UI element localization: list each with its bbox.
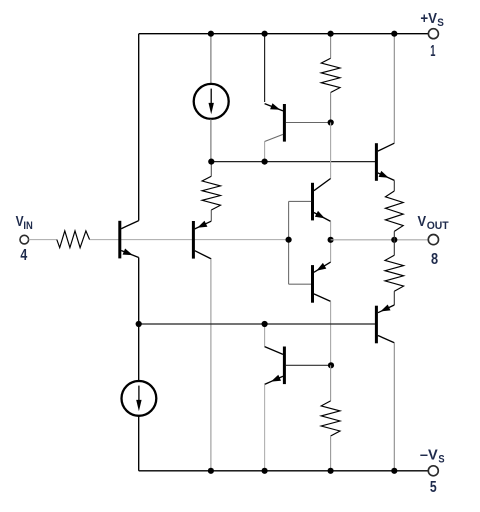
wire bias line lower (left vertical to Q8 base) [139, 323, 375, 325]
transistor Q4 (bottom NPN, left-facing) [283, 347, 286, 385]
wire Q5 emitter to output node [330, 221, 332, 262]
transistor Q7 (output NPN) [375, 143, 378, 181]
svg-text:OUT: OUT [427, 220, 450, 232]
wire +VS to resistor R3 [330, 34, 332, 59]
svg-text:+V: +V [420, 10, 437, 27]
wire VIN terminal to R1 [29, 239, 57, 241]
junction Q3 collector on bias line [262, 159, 268, 165]
terminal -VS pin [428, 466, 438, 476]
transistor Q5 (VBE multiplier NPN) [311, 183, 314, 221]
svg-text:S: S [437, 17, 444, 29]
svg-text:4: 4 [20, 247, 27, 264]
wire left vertical +VS to Q1 collector [138, 34, 140, 221]
transistor Q3 (top PNP, left-facing) [283, 104, 286, 142]
junction top rail I1 [208, 31, 214, 37]
junction output at right column [391, 237, 397, 243]
wire I2 to -VS rail [138, 416, 140, 471]
terminal VOUT pin [428, 235, 438, 245]
wire Q3 base to R3 [286, 122, 331, 124]
terminal VIN pin [20, 235, 29, 244]
wire Q6 collector node to resistor R6 [330, 365, 332, 401]
junction bottom rail Q4 emitter [262, 468, 268, 474]
wire I1 to node at R2 top [210, 119, 212, 162]
junction center output node [328, 237, 334, 243]
current source I2 (bottom) [121, 381, 156, 416]
wire bias line upper (I1/R2 node to Q7 base) [211, 161, 375, 163]
wire Q6 collector down to Q4 base node [330, 301, 332, 365]
svg-text:IN: IN [23, 220, 32, 232]
junction bottom rail Q2 collector [208, 468, 214, 474]
terminal +VS pin [428, 29, 438, 39]
resistor R2 (Q2 emitter degeneration) [210, 162, 212, 177]
resistor R5 (output lower) [393, 240, 395, 256]
junction top rail Q3 emitter [262, 31, 268, 37]
svg-text:8: 8 [431, 251, 438, 268]
transistor Q6 (VBE multiplier PNP) [311, 265, 314, 303]
svg-text:V: V [16, 213, 24, 230]
junction R3 Q3 base node [328, 119, 334, 125]
wire Q3 collector to bias line [264, 142, 266, 162]
wire R3 to Q3 base node [330, 93, 332, 123]
wire R6 to -VS rail [330, 436, 332, 471]
resistor R6 (bottom bias) [321, 401, 340, 436]
wire common base vertical [288, 201, 290, 284]
wire Q1 emitter down to current source I2 [138, 258, 140, 382]
svg-text:5: 5 [430, 479, 437, 496]
resistor R4 (output upper) [393, 180, 395, 191]
transistor Q2 (input PNP) [192, 221, 195, 259]
wire bottom supply rail [139, 470, 429, 472]
wire +VS to current source I1 [210, 34, 212, 84]
current source I1 (top) [194, 84, 229, 119]
junction input line to center bases [286, 237, 292, 243]
resistor R3 (top bias) [321, 58, 340, 92]
svg-text:–V: –V [420, 447, 438, 464]
wire Q8 collector to -VS rail [393, 343, 395, 471]
wire input base line to Q1 Q2 and bias bases [90, 239, 289, 241]
svg-text:S: S [438, 454, 444, 466]
wire output line center to VOUT [331, 239, 429, 241]
junction top rail R3 [328, 31, 334, 37]
junction bottom rail Q8 collector [391, 468, 397, 474]
junction Q4 base R6 node [328, 362, 334, 368]
wire Q4 base to R6 node [286, 364, 331, 366]
wire +VS to Q7 collector [393, 34, 395, 144]
junction top rail Q7 collector [391, 31, 397, 37]
transistor Q1 (input NPN) [118, 221, 121, 259]
wire Q4 emitter to -VS rail [264, 384, 266, 470]
junction bottom rail R6 [328, 468, 334, 474]
wire +VS to Q3 emitter [264, 34, 266, 102]
junction Q4 collector on lower bias line [262, 321, 268, 327]
wire top supply rail [139, 33, 429, 35]
svg-text:V: V [418, 213, 427, 230]
wire Q2 collector to -VS rail [210, 259, 212, 471]
wire Q4 collector to lower bias line [264, 324, 266, 347]
wire Q6 base to common base node [289, 283, 312, 285]
transistor Q8 (output PNP) [375, 306, 378, 344]
wire Q3 base node down to Q5 collector [330, 123, 332, 179]
resistor R1 (input series) [57, 231, 90, 248]
junction I1 R2 node [208, 159, 214, 165]
wire Q5 base to common base node [289, 200, 312, 202]
junction left vertical at lower bias line [136, 321, 142, 327]
svg-text:1: 1 [430, 43, 435, 60]
